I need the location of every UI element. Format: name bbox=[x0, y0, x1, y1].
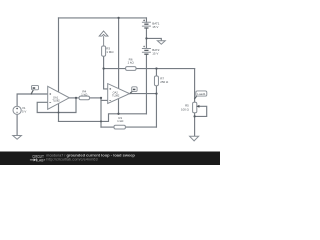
battery BAT1 bbox=[142, 19, 151, 28]
resistor R6 bbox=[126, 67, 136, 71]
node flag Load1 bbox=[196, 91, 207, 96]
svg-text:LAB: LAB bbox=[37, 158, 44, 162]
op-amp OA1 bbox=[48, 86, 70, 109]
wire node flag pin B bbox=[130, 91, 133, 93]
wire V- rail staircase to op-amps bbox=[59, 114, 147, 122]
wire node to R1 staircase bbox=[101, 126, 114, 128]
wire R3 node to OA2 noninverting input bbox=[104, 56, 108, 89]
node flag A at V1 wire bbox=[32, 85, 39, 89]
wire pot wiper loop bbox=[195, 106, 207, 116]
value label BAT2 15 V bbox=[152, 48, 160, 56]
svg-text:TL082: TL082 bbox=[52, 98, 60, 102]
svg-text:1 kΩ: 1 kΩ bbox=[127, 60, 134, 64]
svg-text:Load1: Load1 bbox=[197, 92, 206, 96]
value label R7 250 Ω bbox=[160, 76, 169, 84]
svg-text:15 V: 15 V bbox=[152, 25, 158, 29]
potentiometer R5 (load) bbox=[193, 102, 200, 113]
svg-text:1 MΩ: 1 MΩ bbox=[106, 50, 114, 54]
wire BAT1 to BAT2 bbox=[145, 28, 147, 48]
svg-text:100 Ω: 100 Ω bbox=[181, 108, 190, 112]
svg-text:TL082: TL082 bbox=[112, 93, 120, 97]
value label R3 1 MΩ bbox=[106, 46, 114, 54]
wire R4 to node bbox=[90, 97, 102, 99]
voltage source V1 bbox=[13, 106, 21, 114]
footer bar bbox=[0, 152, 220, 166]
node flag B at OA2 output bbox=[132, 87, 137, 92]
wire V1 to ground bbox=[16, 115, 18, 136]
wire BAT1 top stub bbox=[145, 18, 147, 22]
svg-text:5 V: 5 V bbox=[22, 110, 26, 114]
wire OA1 V+ riser bbox=[58, 18, 60, 92]
value label R5 100 Ω bbox=[181, 104, 190, 112]
wire OA2 inverting input riser bbox=[100, 98, 102, 127]
label OA1 TL082 bbox=[52, 96, 60, 103]
svg-text:1 kΩ: 1 kΩ bbox=[81, 92, 88, 96]
value label BAT1 15 V bbox=[152, 22, 160, 30]
wire R1 to output riser bbox=[125, 126, 156, 128]
wire battery midpoint to ground bbox=[146, 38, 161, 40]
svg-text:250 Ω: 250 Ω bbox=[160, 80, 169, 84]
resistor R7 bbox=[154, 76, 158, 86]
wire OA2 inverting input bbox=[101, 99, 108, 101]
svg-text:1 kΩ: 1 kΩ bbox=[117, 119, 124, 123]
wire OA1 V- pin bbox=[58, 104, 60, 122]
node flag arrow (R3 top) bbox=[99, 31, 108, 36]
ground (load) bbox=[190, 136, 199, 141]
label OA2 TL082 bbox=[112, 91, 120, 98]
wire node flag pin A bbox=[31, 90, 33, 94]
svg-text:15 V: 15 V bbox=[152, 51, 158, 55]
wire OA1 feedback loop bbox=[37, 98, 76, 113]
wire R7 bottom / R1 riser bbox=[155, 86, 157, 127]
wire load drop bbox=[194, 69, 196, 103]
resistor R1 bbox=[114, 125, 125, 129]
ground (battery midpoint) bbox=[157, 41, 165, 44]
wire BAT2 minus rail down bbox=[145, 54, 147, 114]
value label R1 1 kΩ bbox=[117, 116, 124, 123]
wire V1 to OA1 noninverting input bbox=[17, 94, 48, 106]
value label R4 1 kΩ bbox=[81, 90, 88, 97]
CircuitLab logo bbox=[30, 154, 45, 163]
wire node flag pin Load1 bbox=[195, 96, 197, 99]
wire OA2 V- pin bbox=[118, 99, 120, 114]
svg-text:http://circuitlab.com/c/e4nm63: http://circuitlab.com/c/e4nm63 bbox=[46, 157, 97, 161]
wire signal rail with R6 to load bbox=[104, 68, 195, 70]
value label V1 5 V bbox=[22, 106, 26, 114]
battery BAT2 bbox=[142, 46, 151, 55]
junction dots bbox=[58, 17, 196, 123]
op-amp OA2 bbox=[108, 84, 130, 104]
wire OA1 output to R4 bbox=[69, 97, 79, 99]
value label R6 1 kΩ bbox=[127, 57, 134, 64]
wire R7 top stub bbox=[155, 69, 157, 76]
resistor R4 bbox=[79, 96, 89, 100]
ground (V1) bbox=[13, 136, 22, 140]
wire arrow stem bbox=[103, 36, 105, 46]
wire OA2 V+ riser bbox=[118, 18, 120, 88]
wire R5 to ground bbox=[194, 113, 196, 137]
resistor R3 bbox=[102, 46, 106, 56]
wire +15 top rail bbox=[59, 17, 147, 19]
wire OA2 output bbox=[130, 93, 157, 95]
